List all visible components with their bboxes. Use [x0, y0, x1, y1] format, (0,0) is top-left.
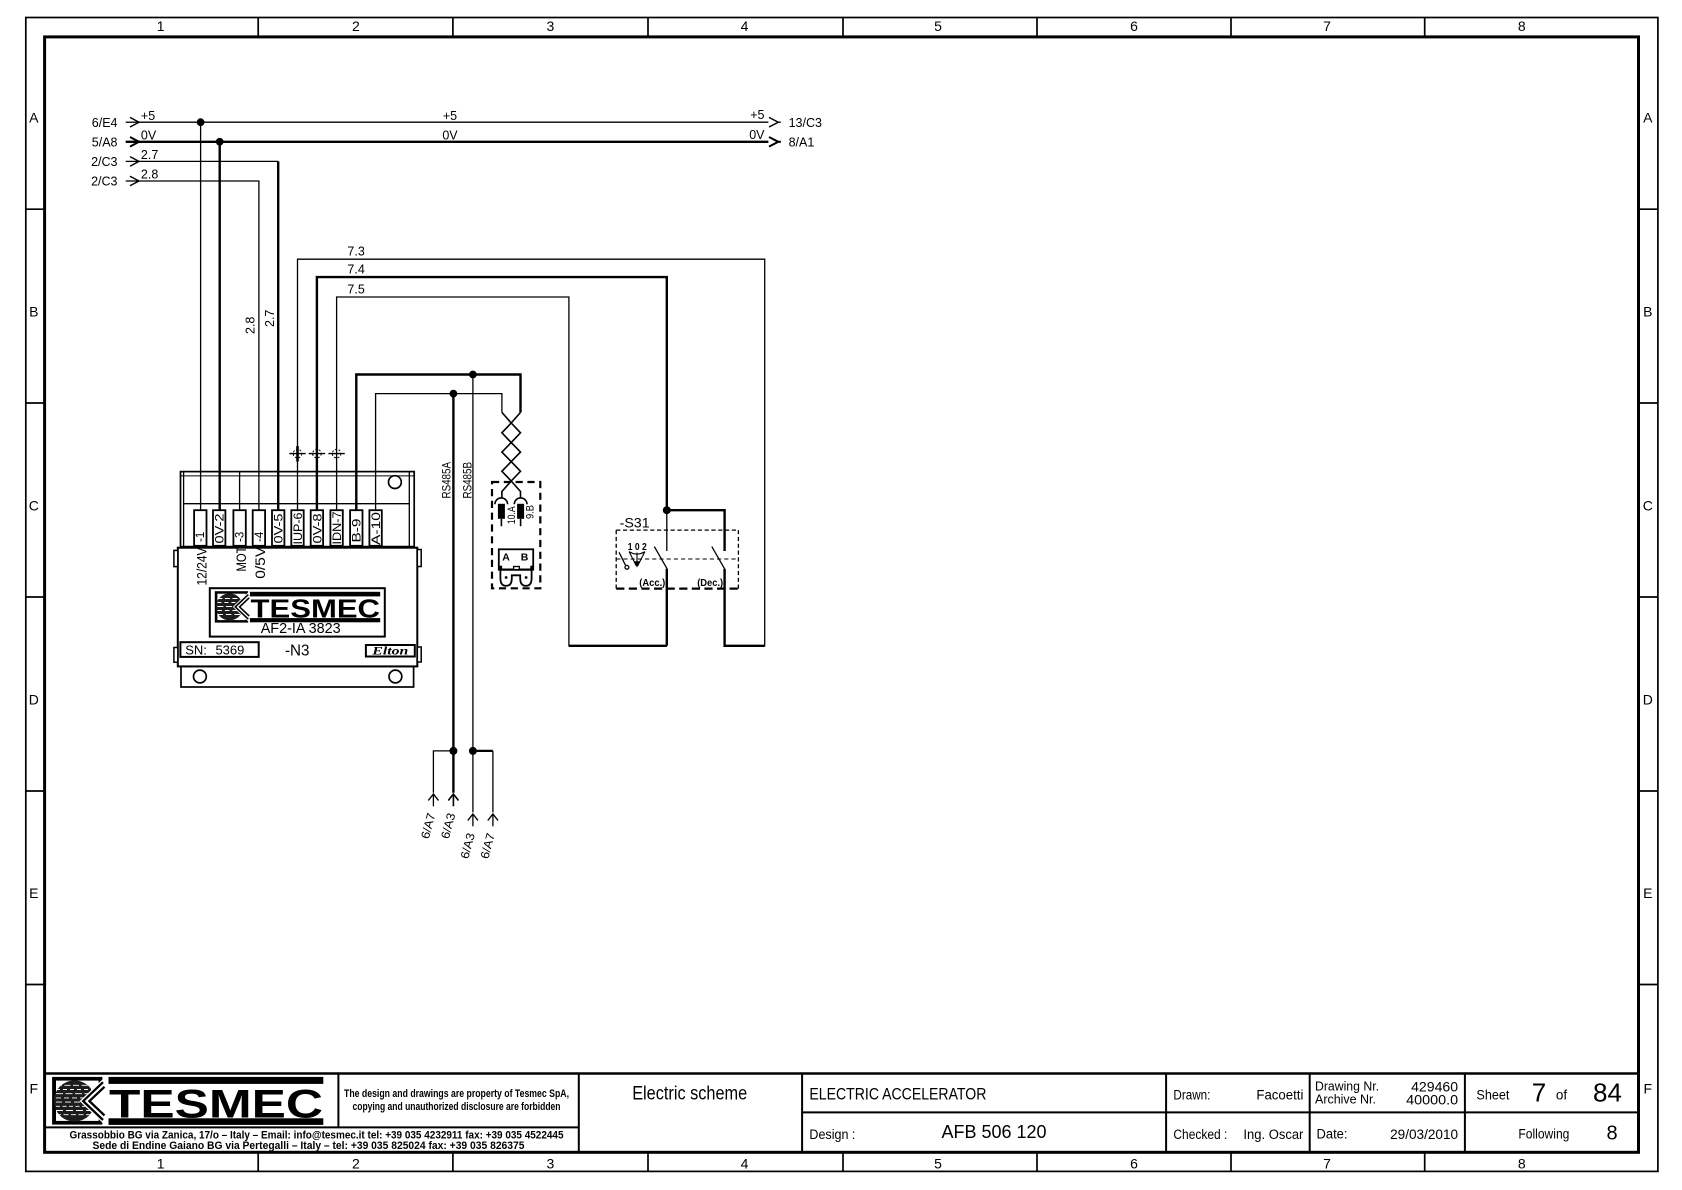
- svg-text:A-10: A-10: [371, 512, 383, 545]
- svg-text:5369: 5369: [215, 642, 244, 657]
- svg-text:7.5: 7.5: [347, 282, 364, 296]
- svg-text:+5: +5: [750, 108, 764, 122]
- svg-text:12/24V: 12/24V: [194, 547, 210, 586]
- switch lever indicator: [629, 552, 645, 566]
- wire A-10: [376, 394, 502, 511]
- svg-text:D: D: [29, 691, 39, 707]
- svg-text:0V: 0V: [442, 128, 458, 142]
- svg-text:Drawn:: Drawn:: [1173, 1088, 1210, 1103]
- source arrow 2/C3 wire 2.7: [91, 155, 139, 169]
- frame left ruler ticks: [26, 209, 45, 984]
- svg-text:Elton: Elton: [371, 646, 408, 658]
- svg-text:29/03/2010: 29/03/2010: [1390, 1126, 1458, 1142]
- svg-text:8: 8: [1606, 1123, 1617, 1145]
- svg-text:D: D: [1643, 691, 1653, 707]
- destination arrow 6/A3 first: [438, 794, 458, 840]
- wire RS485A: [452, 394, 454, 793]
- svg-text:3: 3: [547, 1156, 555, 1172]
- svg-text:1: 1: [157, 18, 165, 34]
- terminal 3: [233, 510, 246, 546]
- svg-text:+5: +5: [141, 109, 155, 123]
- wire 7.4: [317, 277, 667, 510]
- svg-text:2/C3: 2/C3: [91, 175, 117, 189]
- svg-text:A: A: [29, 110, 39, 126]
- fuse 9.B lead: [520, 519, 522, 526]
- svg-text:9.B: 9.B: [525, 505, 537, 519]
- wire +5: [139, 121, 768, 123]
- switch lever arrow head: [634, 561, 639, 567]
- wire pin 1: [200, 122, 202, 510]
- svg-text:Date:: Date:: [1317, 1126, 1348, 1141]
- svg-text:Ing. Oscar: Ing. Oscar: [1243, 1127, 1303, 1142]
- Tesmec logo lettering on module: [250, 592, 380, 624]
- svg-text:A: A: [1643, 110, 1653, 126]
- svg-text:0V-5: 0V-5: [274, 514, 286, 544]
- svg-text:E: E: [1643, 885, 1652, 901]
- svg-text:(Acc.): (Acc.): [639, 577, 665, 589]
- wire 7.5 bottom thick segment: [569, 645, 667, 647]
- connector crosshair pin 0V-8: [309, 449, 325, 458]
- fuse 10.A lead: [500, 519, 502, 526]
- svg-text:Following: Following: [1518, 1126, 1569, 1141]
- destination arrow 8/A1: [769, 136, 814, 150]
- wire Acc contact to 7.5: [666, 569, 668, 646]
- svg-text:(Dec.): (Dec.): [697, 577, 723, 589]
- column numbers bottom: [157, 1156, 1526, 1172]
- wire 6/A7 right vertical: [492, 751, 494, 813]
- svg-text:7.3: 7.3: [347, 245, 364, 259]
- svg-text:B: B: [521, 551, 529, 563]
- bottom strip screw hole right: [389, 670, 402, 683]
- junction +5 to pin 1: [197, 118, 205, 126]
- svg-text:TESMEC: TESMEC: [251, 594, 381, 624]
- svg-text:copying and unauthorized discl: copying and unauthorized disclosure are …: [353, 1101, 561, 1113]
- connector crosshair pin IUP-6: [289, 446, 305, 462]
- switch Acc contact blade: [654, 547, 667, 569]
- junction 0V to pin 2: [216, 138, 224, 146]
- source arrow 6/E4: [92, 116, 139, 130]
- frame right ruler ticks: [1639, 209, 1658, 984]
- svg-text:3: 3: [547, 18, 555, 34]
- svg-text:B-9: B-9: [352, 519, 364, 543]
- plug connector separation line: [499, 568, 533, 570]
- terminal 3 internal stub wire: [239, 472, 241, 511]
- Tesmec logo lettering (title block): [109, 1077, 324, 1127]
- svg-text:2/C3: 2/C3: [91, 155, 117, 169]
- Tesmec logo box on module: [210, 588, 385, 636]
- svg-text:-S31: -S31: [620, 515, 650, 531]
- source arrow 5/A8: [92, 136, 139, 150]
- svg-text:10.A: 10.A: [506, 506, 518, 525]
- wire 2.8: [139, 181, 259, 510]
- wire Dec contact to 7.3: [725, 569, 765, 646]
- wire 7.5: [337, 297, 667, 646]
- switch S31 dashed enclosure: [616, 530, 738, 589]
- svg-text:SN:: SN:: [185, 642, 207, 657]
- svg-text:5/A8: 5/A8: [92, 136, 118, 150]
- svg-text:B: B: [1643, 304, 1652, 320]
- svg-text:4: 4: [741, 18, 749, 34]
- terminal 5: [272, 510, 286, 546]
- svg-text:Sede di Endine Gaiano BG via P: Sede di Endine Gaiano BG via Pertegalli …: [93, 1140, 525, 1152]
- Elton brand box: [366, 645, 415, 657]
- module N3 body: [178, 548, 417, 667]
- wire B-9: [356, 375, 520, 511]
- fuse 10.A body: [498, 504, 505, 519]
- svg-text:1: 1: [157, 1156, 165, 1172]
- svg-text:2.8: 2.8: [244, 317, 258, 334]
- connector crosshair pin IDN-7: [328, 449, 344, 458]
- svg-text:-1: -1: [195, 532, 207, 542]
- svg-text:0V-2: 0V-2: [215, 514, 227, 544]
- svg-text:13/C3: 13/C3: [789, 116, 822, 130]
- svg-text:1 0 2: 1 0 2: [628, 541, 647, 553]
- twisted pair wire B: [502, 412, 521, 497]
- svg-text:6: 6: [1130, 1156, 1138, 1172]
- svg-text:7: 7: [1323, 18, 1331, 34]
- junction RS485B: [469, 371, 477, 379]
- svg-text:8: 8: [1518, 1156, 1526, 1172]
- svg-text:MOT: MOT: [233, 546, 249, 571]
- svg-text:Design :: Design :: [809, 1126, 855, 1142]
- wire pin 2: [218, 142, 220, 510]
- svg-text:+5: +5: [443, 109, 457, 123]
- row letters left: [29, 110, 39, 1097]
- svg-text:6/E4: 6/E4: [92, 116, 118, 130]
- svg-text:0/5V: 0/5V: [252, 546, 268, 579]
- svg-text:The design and drawings are pr: The design and drawings are property of …: [344, 1088, 569, 1100]
- svg-text:0V: 0V: [141, 128, 157, 142]
- source arrow 2/C3 wire 2.8: [91, 175, 139, 189]
- bottom strip screw hole left: [194, 670, 207, 683]
- svg-text:40000.0: 40000.0: [1406, 1092, 1458, 1108]
- module N3 terminal housing: [181, 472, 415, 547]
- terminal 9: [350, 510, 364, 546]
- plug connector body: [499, 549, 533, 569]
- svg-text:-3: -3: [235, 532, 247, 542]
- svg-text:-4: -4: [254, 531, 266, 542]
- svg-text:IDN-7: IDN-7: [332, 512, 344, 545]
- svg-text:7: 7: [1323, 1156, 1331, 1172]
- svg-text:TESMEC: TESMEC: [109, 1082, 323, 1126]
- svg-text:Sheet: Sheet: [1476, 1088, 1509, 1103]
- terminal 7: [311, 510, 325, 546]
- wire 2.7 vertical thick: [277, 161, 279, 510]
- svg-text:5: 5: [934, 1156, 942, 1172]
- svg-text:2: 2: [352, 18, 360, 34]
- plug connector clip left: [500, 566, 503, 570]
- column numbers top: [157, 18, 1526, 34]
- svg-text:4: 4: [741, 1156, 749, 1172]
- svg-text:6: 6: [1130, 18, 1138, 34]
- destination arrow 6/A3 second: [458, 814, 478, 860]
- svg-text:8: 8: [1518, 18, 1526, 34]
- fuse 9.B body: [517, 504, 524, 519]
- terminal 6: [291, 510, 305, 546]
- junction RS485B branch: [469, 747, 477, 755]
- svg-text:2: 2: [352, 1156, 360, 1172]
- svg-text:of: of: [1556, 1088, 1568, 1103]
- terminal 1: [194, 510, 207, 546]
- svg-text:A: A: [502, 551, 510, 563]
- svg-text:RS485A: RS485A: [440, 462, 454, 499]
- destination arrow 13/C3: [769, 116, 822, 130]
- svg-text:7: 7: [1532, 1078, 1546, 1108]
- svg-text:ELECTRIC ACCELERATOR: ELECTRIC ACCELERATOR: [809, 1086, 986, 1104]
- svg-text:F: F: [1644, 1080, 1653, 1096]
- svg-text:2.7: 2.7: [263, 310, 277, 327]
- terminal 8: [330, 510, 344, 546]
- svg-text:Electric scheme: Electric scheme: [632, 1083, 747, 1105]
- fuse holder dashed enclosure: [492, 482, 540, 588]
- svg-text:5: 5: [934, 18, 942, 34]
- junction wire 7.4 to S31: [663, 506, 671, 514]
- svg-text:AF2-IA 3823: AF2-IA 3823: [261, 621, 341, 637]
- twisted pair wire A: [502, 412, 521, 497]
- svg-text:C: C: [29, 498, 39, 514]
- Tesmec logo emblem (title block): [52, 1077, 104, 1125]
- row letters right: [1643, 110, 1653, 1097]
- fuse 9.B holder clip: [514, 498, 527, 504]
- wire branch to 6/A7 left: [433, 751, 453, 793]
- svg-text:RS485B: RS485B: [460, 462, 474, 499]
- terminal 4: [253, 510, 266, 546]
- serial number box: [180, 642, 258, 657]
- terminal 2: [213, 510, 227, 546]
- junction RS485A branch: [449, 747, 457, 755]
- wire branch to 6/A7 right: [473, 750, 493, 752]
- svg-text:0V-8: 0V-8: [312, 514, 324, 544]
- svg-text:IUP-6: IUP-6: [293, 513, 305, 545]
- wire RS485B: [472, 375, 474, 813]
- svg-text:E: E: [29, 885, 38, 901]
- plug socket dot A: [505, 576, 508, 579]
- wire 0V: [139, 141, 768, 143]
- svg-text:8/A1: 8/A1: [789, 136, 815, 150]
- destination arrow 6/A7 first: [418, 794, 438, 840]
- svg-text:Archive Nr.: Archive Nr.: [1315, 1092, 1376, 1106]
- terminal 10: [369, 510, 383, 546]
- svg-text:B: B: [29, 304, 38, 320]
- Tesmec logo emblem on module: [215, 591, 249, 622]
- svg-text:0V: 0V: [749, 128, 765, 142]
- svg-text:7.4: 7.4: [347, 263, 364, 277]
- svg-text:2.8: 2.8: [141, 168, 158, 182]
- junction RS485A: [450, 390, 458, 398]
- svg-text:Facoetti: Facoetti: [1256, 1088, 1303, 1103]
- svg-text:Checked :: Checked :: [1173, 1127, 1227, 1142]
- module N3 housing screw hole: [389, 476, 402, 489]
- title block grid lines: [45, 1072, 1639, 1074]
- plug connector clip right: [530, 566, 533, 570]
- svg-text:C: C: [1643, 498, 1653, 514]
- switch pilot contact: [619, 552, 629, 569]
- wire S31 common to Dec contact: [667, 510, 725, 551]
- svg-text:84: 84: [1593, 1078, 1622, 1108]
- plug socket dot B: [525, 576, 528, 579]
- wire 7.4 into Acc contact: [666, 510, 668, 551]
- svg-text:AFB 506 120: AFB 506 120: [942, 1122, 1047, 1142]
- frame top ruler ticks: [258, 18, 1425, 37]
- module N3 side tabs: [174, 550, 421, 663]
- plug connector sockets: [500, 570, 531, 586]
- svg-text:-N3: -N3: [285, 642, 310, 659]
- switch S31 mechanical linkage dashed line: [616, 558, 738, 560]
- svg-text:F: F: [30, 1080, 39, 1096]
- plug connector latch notch: [514, 567, 520, 570]
- wire 2.7: [139, 160, 278, 162]
- destination arrow 6/A7 second: [478, 814, 498, 860]
- fuse 10.A holder clip: [495, 498, 508, 504]
- svg-text:2.7: 2.7: [141, 148, 158, 162]
- frame bottom ruler ticks: [258, 1152, 1425, 1171]
- module N3 bottom strip: [181, 666, 414, 687]
- switch Dec contact blade: [712, 547, 725, 569]
- wire 7.3: [298, 259, 765, 646]
